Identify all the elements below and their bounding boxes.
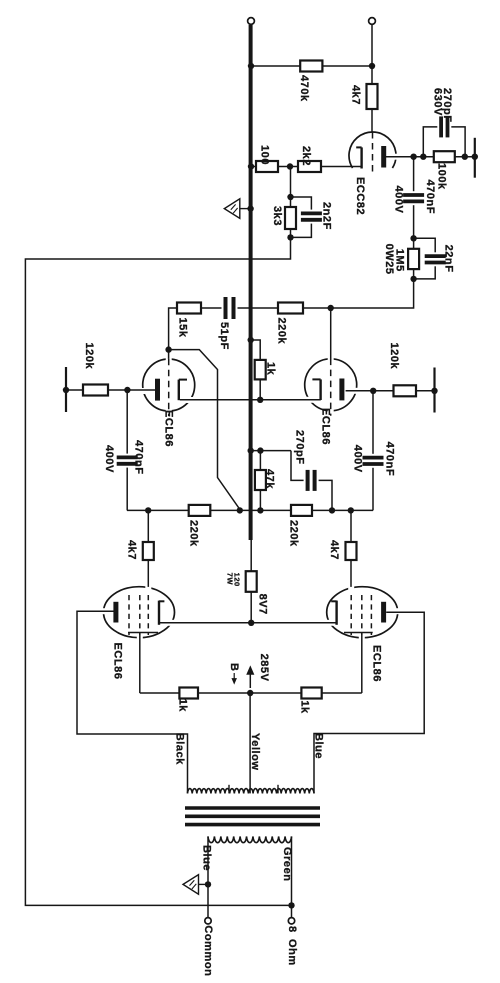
svg-text:630V: 630V bbox=[432, 88, 444, 116]
svg-text:270pF: 270pF bbox=[294, 430, 306, 465]
svg-text:1k: 1k bbox=[265, 362, 277, 376]
svg-text:ECC82: ECC82 bbox=[354, 177, 366, 215]
svg-text:ECL86: ECL86 bbox=[320, 408, 332, 445]
svg-text:8: 8 bbox=[286, 926, 298, 933]
svg-text:400V: 400V bbox=[103, 445, 115, 473]
svg-text:1k: 1k bbox=[177, 699, 189, 713]
svg-text:220k: 220k bbox=[188, 520, 200, 547]
svg-text:4k7: 4k7 bbox=[328, 540, 340, 560]
svg-text:120k: 120k bbox=[83, 343, 95, 370]
svg-text:2n2F: 2n2F bbox=[321, 202, 333, 230]
svg-text:100k: 100k bbox=[436, 163, 448, 190]
svg-text:220k: 220k bbox=[288, 520, 300, 547]
svg-text:Yellow: Yellow bbox=[249, 733, 261, 771]
svg-text:400V: 400V bbox=[393, 186, 405, 214]
svg-text:ECL86: ECL86 bbox=[112, 643, 124, 680]
svg-text:47k: 47k bbox=[264, 469, 276, 489]
svg-text:B: B bbox=[228, 663, 240, 672]
svg-text:285V: 285V bbox=[258, 654, 270, 682]
svg-text:22nF: 22nF bbox=[443, 245, 455, 273]
svg-text:Black: Black bbox=[174, 733, 186, 765]
svg-text:470nF: 470nF bbox=[133, 440, 145, 475]
svg-text:Blue: Blue bbox=[313, 733, 325, 759]
svg-text:4k7: 4k7 bbox=[126, 540, 138, 560]
svg-text:120k: 120k bbox=[388, 343, 400, 370]
svg-text:0W25: 0W25 bbox=[383, 244, 395, 275]
svg-text:1k: 1k bbox=[299, 700, 311, 714]
svg-text:220k: 220k bbox=[276, 318, 288, 345]
svg-text:8V7: 8V7 bbox=[257, 594, 269, 615]
svg-text:100: 100 bbox=[259, 145, 271, 165]
svg-text:51pF: 51pF bbox=[218, 322, 230, 350]
svg-text:4k7: 4k7 bbox=[350, 85, 362, 105]
svg-text:Ohm: Ohm bbox=[286, 939, 298, 966]
svg-text:3k3: 3k3 bbox=[271, 206, 283, 226]
svg-text:7W: 7W bbox=[226, 573, 235, 586]
svg-text:Blue: Blue bbox=[201, 845, 213, 871]
svg-text:2k2: 2k2 bbox=[300, 146, 312, 166]
svg-text:Common: Common bbox=[202, 925, 214, 976]
svg-text:Green: Green bbox=[281, 847, 293, 882]
svg-text:470k: 470k bbox=[298, 75, 310, 102]
svg-text:400V: 400V bbox=[352, 445, 364, 473]
svg-text:ECL86: ECL86 bbox=[163, 410, 175, 447]
svg-text:15k: 15k bbox=[177, 318, 189, 338]
svg-text:470nF: 470nF bbox=[424, 180, 436, 215]
svg-text:470nF: 470nF bbox=[384, 442, 396, 477]
svg-text:ECL86: ECL86 bbox=[371, 645, 383, 682]
